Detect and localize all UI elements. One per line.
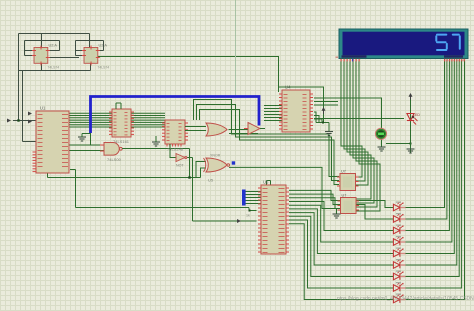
svg-text:U2:A: U2:A [49, 44, 58, 48]
svg-text:NOT: NOT [176, 164, 184, 168]
svg-text:1k: 1k [246, 214, 250, 218]
svg-text:74LS74: 74LS74 [48, 66, 60, 70]
svg-text:74LS74: 74LS74 [98, 66, 110, 70]
svg-text:U7: U7 [341, 170, 346, 174]
svg-text:ntps./blog.csdn.net/m0_4617344: ntps./blog.csdn.net/m0_46173442/article/… [337, 296, 474, 302]
svg-text:U2:A: U2:A [99, 44, 108, 48]
svg-text:U1: U1 [40, 106, 46, 111]
svg-text:LED: LED [413, 113, 420, 117]
svg-text:XNOR: XNOR [210, 154, 221, 158]
svg-text:U5: U5 [208, 178, 214, 183]
svg-text:74LS00: 74LS00 [107, 157, 122, 162]
svg-text:U6: U6 [263, 180, 269, 185]
svg-text:U4: U4 [285, 85, 291, 90]
svg-text:U7: U7 [342, 194, 347, 198]
